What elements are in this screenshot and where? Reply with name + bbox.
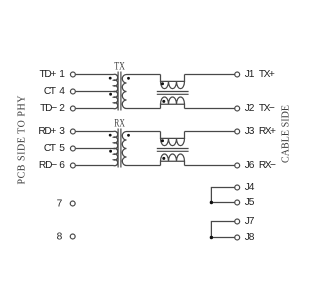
svg-text:J2: J2 xyxy=(245,103,255,114)
svg-text:RX+: RX+ xyxy=(259,126,276,137)
svg-text:6: 6 xyxy=(59,160,65,171)
svg-text:CT: CT xyxy=(44,86,56,97)
svg-text:J5: J5 xyxy=(245,197,255,208)
svg-text:4: 4 xyxy=(59,86,65,97)
svg-text:3: 3 xyxy=(59,126,65,137)
svg-text:J3: J3 xyxy=(245,126,255,137)
svg-text:5: 5 xyxy=(59,143,65,154)
svg-text:J6: J6 xyxy=(245,160,255,171)
svg-text:TX−: TX− xyxy=(259,103,275,114)
svg-text:J4: J4 xyxy=(245,182,255,193)
svg-text:J7: J7 xyxy=(245,216,255,227)
svg-text:8: 8 xyxy=(57,231,63,242)
svg-text:CT: CT xyxy=(44,143,56,154)
svg-text:RD+: RD+ xyxy=(38,126,56,137)
svg-text:CABLE SIDE: CABLE SIDE xyxy=(281,105,292,163)
svg-text:PCB SIDE TO PHY: PCB SIDE TO PHY xyxy=(16,96,27,185)
svg-text:RX−: RX− xyxy=(259,160,276,171)
svg-text:2: 2 xyxy=(59,103,65,114)
svg-text:1: 1 xyxy=(59,69,65,80)
svg-text:TD−: TD− xyxy=(40,103,57,114)
svg-text:J1: J1 xyxy=(245,69,255,80)
svg-text:RX: RX xyxy=(114,115,125,129)
svg-text:J8: J8 xyxy=(245,232,255,243)
svg-text:TD+: TD+ xyxy=(40,69,57,80)
svg-text:TX+: TX+ xyxy=(259,69,275,80)
svg-text:TX: TX xyxy=(114,58,125,72)
svg-text:7: 7 xyxy=(57,198,63,209)
svg-text:RD−: RD− xyxy=(39,160,57,171)
